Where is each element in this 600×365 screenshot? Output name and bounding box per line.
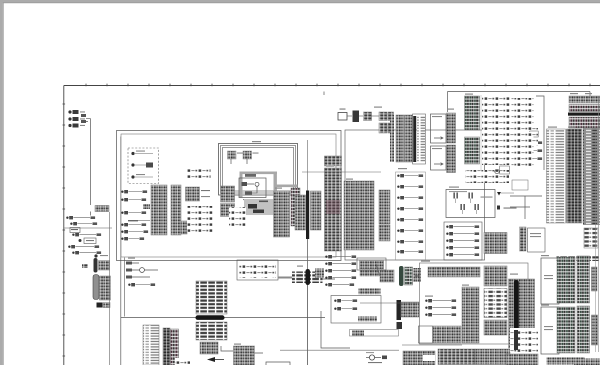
solenoid SV-2 [397, 186, 399, 188]
arrow comp bottom right [510, 328, 538, 352]
connector CN-K1 row [569, 96, 600, 103]
wire box psv [357, 258, 386, 270]
driver labels [449, 191, 467, 192]
connector CN-G1b maroon table [291, 188, 300, 226]
connector cells below panel [584, 228, 598, 248]
scatter comps above driver box [465, 170, 509, 183]
wire riser left1 [120, 258, 122, 365]
junction block q2 [397, 322, 403, 329]
connector CN-Q0 [380, 270, 394, 282]
connector CN-RQ0 cells [315, 269, 324, 278]
switch SW-9 [121, 231, 123, 233]
list table L2 [143, 325, 159, 365]
solenoid SV-5 [397, 219, 399, 221]
connector CN-H1 upper block [325, 156, 342, 166]
pump box B2 [237, 260, 278, 280]
junction bar dark q [397, 300, 402, 320]
timer box [331, 296, 381, 324]
wire joint right [323, 278, 336, 280]
fuse cell FC-3 [388, 112, 394, 121]
monitor unit mid [221, 146, 296, 194]
switch SW-10 [121, 238, 123, 240]
connector CN-E0 table [221, 204, 235, 217]
solenoid bank box [396, 172, 426, 260]
connector CN-F1 table [187, 167, 211, 178]
transistor Q4 [475, 204, 476, 210]
cells right of bar [401, 302, 419, 317]
fusible box FB-4 [431, 146, 447, 170]
edge harness col green lower [577, 306, 590, 353]
wire right edge outer [598, 96, 600, 352]
connector CN-O2 [234, 346, 255, 365]
box bottom edge [266, 362, 290, 365]
sensor row 1 [446, 226, 448, 228]
gray connector panel [583, 128, 600, 225]
junction capsule C0 [94, 258, 98, 273]
connector CN-E1 table [151, 185, 167, 235]
bottom cells row BR [506, 354, 538, 365]
transistor Q3 [461, 204, 462, 210]
label CN-R2 [462, 285, 469, 286]
gauge box [239, 178, 266, 198]
connector CN-N2 bank [196, 281, 227, 314]
pump comps [239, 262, 276, 278]
connector CN-F2 table [186, 187, 200, 201]
label BR2 [541, 305, 549, 306]
monitor unit inner [223, 148, 294, 192]
relay row RR-3 [325, 270, 327, 272]
wire bus y228 [64, 227, 112, 229]
fuse cell FC-5 [388, 123, 394, 133]
junction bar JB-2 [413, 116, 416, 162]
label SV bank [398, 168, 407, 169]
pressure switch cluster [508, 128, 538, 146]
wire right edge inner [595, 132, 597, 352]
junction bar JB-1 [306, 191, 309, 240]
pump box outline [420, 263, 529, 344]
enclosure box cab inner [121, 134, 336, 257]
connector CN-G3 table [311, 191, 322, 230]
wire stub [90, 212, 92, 216]
solenoid box q [419, 326, 433, 343]
relay row RR-2 [325, 263, 327, 265]
enclosure box right [345, 130, 485, 260]
bottom right marks [547, 358, 585, 365]
small box ps [530, 131, 538, 137]
wire feed top [324, 92, 590, 113]
switch SW-8 [121, 224, 123, 226]
connector CN-R1 [433, 326, 461, 343]
connector CN-H1 tall table [325, 168, 342, 251]
controller CN cols BR2 [557, 307, 575, 353]
connector CN-RQ2 cells [359, 289, 381, 295]
connector CN-E2 table [171, 185, 181, 235]
label driver box [449, 187, 459, 188]
connector CN-A1 pigtails [68, 110, 71, 113]
transistor Q1 [454, 193, 455, 199]
connector CN-C2 cells [103, 303, 110, 308]
wire riser left2 [123, 258, 125, 317]
connector CN-C0 cells [99, 261, 110, 271]
label list fuse [417, 116, 425, 162]
battery B-1 [338, 113, 347, 121]
wires right middle [510, 196, 542, 219]
connector CN-G1 table [274, 191, 290, 237]
label CN-G1 [275, 188, 282, 189]
fuse list box [413, 114, 426, 164]
timer cells [358, 317, 377, 322]
ground bus G-2 [403, 351, 435, 365]
relay row RR-5 [325, 284, 327, 286]
harness capsule C1 [93, 275, 99, 300]
wire o2 link [221, 346, 263, 353]
bus bar dark [568, 113, 600, 116]
connector CN-M1 [228, 151, 237, 159]
arrow feed 1 [434, 137, 443, 140]
small box y330 [350, 330, 399, 337]
resistor R-4 [128, 220, 138, 221]
solenoid SV-1 [397, 175, 399, 177]
connector CN-L1 [520, 227, 527, 251]
edge cells upper [592, 267, 598, 291]
connector CN-K3 rows [569, 117, 600, 128]
edge harness col green upper [577, 256, 590, 303]
connector CN-Q2b table [414, 268, 422, 282]
controller CN cols BR1 [557, 257, 575, 303]
connector CN-D2 [176, 221, 187, 234]
label solenoid q [425, 296, 433, 297]
bottom right marks row [574, 359, 600, 365]
connector CN-Q1 [360, 261, 384, 270]
connector CN-J3 table [447, 145, 456, 173]
switch SW-3 row [72, 234, 74, 236]
wire y303 [360, 302, 419, 304]
connector CN-H1 maroon tint [326, 200, 340, 214]
relay block table teal lower [465, 137, 480, 164]
flasher unit bottom [369, 355, 374, 360]
junction cell C2 [97, 303, 103, 308]
connector CN-P1 [352, 331, 364, 336]
ground bus row [557, 256, 600, 262]
ground bus G-3 [438, 349, 475, 365]
switch SW-6b [121, 199, 123, 201]
switch SW-4 row [68, 246, 70, 248]
switch SW-2 row [70, 223, 72, 225]
solenoid SV-3 [397, 197, 399, 199]
wire ground drop [109, 212, 111, 365]
label list [548, 127, 557, 128]
switch SW-5 row [72, 252, 74, 254]
connector CN-G2 table [295, 195, 306, 230]
marks bottom small [175, 358, 190, 365]
arrow mark bottom left [207, 357, 215, 362]
wire bus y316 [121, 317, 325, 319]
diode block D-1 [70, 228, 80, 233]
wire corner bl [321, 311, 350, 348]
wire riser x306 upper [307, 239, 309, 269]
connector CN-J1c table [405, 115, 413, 162]
switch SW-7 [121, 212, 123, 214]
controller box BR2 [541, 307, 559, 354]
fuse cell FC-4 [379, 123, 387, 133]
connector CN-N4 [200, 342, 218, 354]
horn H-1 [128, 284, 130, 286]
connector CN-N1 table [171, 329, 179, 365]
gauge circuit [242, 184, 257, 193]
label pump box [421, 261, 430, 262]
connector CN-J1 table [390, 115, 394, 162]
harness block BR cols [509, 279, 535, 348]
starter motor M-1 [353, 111, 360, 123]
label CN-H3 [346, 179, 353, 180]
solenoid SV-6 [397, 230, 399, 232]
label BR block [510, 274, 518, 275]
lamp E-3 [131, 175, 134, 178]
junction capsule N [196, 315, 225, 320]
edge cells lower [592, 315, 598, 345]
arrow mark driver [497, 192, 501, 196]
label CN-O2 [234, 344, 241, 345]
solenoid SV-7 [397, 241, 399, 243]
sensor bank box [444, 222, 482, 260]
connector CN-S2 [484, 289, 507, 318]
sensor row 4 [446, 247, 448, 249]
flasher cluster [140, 268, 145, 273]
left sparse comps col2 [512, 132, 534, 168]
switch SW-6 [121, 191, 123, 193]
switch SW-1 row [66, 217, 68, 219]
label fuse block [374, 107, 382, 108]
fuse cell FC-2 [379, 112, 387, 121]
harness column dark [567, 129, 583, 223]
sensor row 3 [446, 240, 448, 242]
signal list table [547, 129, 566, 223]
relay cluster mid right [521, 142, 523, 144]
connector CN-C1 cells [100, 276, 111, 300]
wire down-left feeder [90, 127, 92, 206]
junction block J-1 [292, 272, 323, 284]
connector CN-RQ1 cells [360, 270, 380, 277]
sensor row 5 [446, 254, 448, 256]
solenoid row q3 [425, 314, 427, 316]
harness column L2 [163, 328, 170, 365]
wire harness to frame [86, 119, 91, 127]
connector CN-H3 wide table [344, 181, 374, 250]
small box ps2 [500, 166, 510, 174]
wire center drop x121 lower [120, 137, 122, 258]
monitor shade band horizontal [240, 172, 278, 175]
connector CN-F3 table [187, 206, 213, 232]
connector CN-H4b table [379, 225, 390, 241]
connector CN-H4 table [379, 190, 390, 224]
connector CN-B1 [95, 206, 109, 212]
junction bar green [399, 266, 404, 286]
wire monitor link [231, 159, 247, 164]
connector CN-C0 left cell [82, 264, 88, 268]
enclosure box cab outline [117, 131, 342, 261]
label CN-H1 [326, 166, 334, 167]
arrow mark ps [515, 138, 520, 142]
ground bus G-4 [475, 349, 510, 365]
solenoid SV-8 [397, 251, 399, 253]
relay row RR-1 [325, 256, 327, 258]
relay block table teal upper [465, 96, 480, 130]
control box T-1 [528, 228, 546, 252]
solenoid row q2 [425, 307, 427, 309]
wire link q [376, 264, 419, 276]
left sparse comps col1 [512, 98, 534, 128]
connector CN-S1 [484, 266, 507, 286]
transistor Q2 [469, 193, 470, 199]
driver side block [497, 206, 500, 210]
monitor shade band vertical left [240, 172, 243, 198]
connector CN-I1 table [484, 233, 507, 254]
fuse cell FC-1 [364, 112, 372, 121]
timer comps [334, 300, 336, 302]
connector CN-M2 [243, 151, 252, 159]
wire y345 [402, 344, 462, 346]
lamp E-1 [131, 152, 134, 155]
monitor shade band horizontal low [274, 185, 298, 188]
wire joint thick left [278, 277, 292, 279]
controller box BR1 [541, 258, 559, 304]
harness shade patch [244, 199, 277, 215]
wire monitor to JB-1 [307, 140, 309, 191]
wire drop x481 [480, 95, 482, 170]
connector CN-J1b table [396, 115, 404, 162]
scatter comps right of relay block [482, 95, 510, 165]
connector CN-S3 [484, 320, 507, 335]
connector CN-N3 bank [196, 322, 227, 340]
monitor shade band vertical right [274, 172, 277, 215]
relay row RR-4 [325, 277, 327, 279]
label BR1 [541, 255, 549, 256]
small box mid right [512, 180, 528, 190]
label monitor [252, 141, 261, 142]
connector CN-A2 [81, 114, 86, 117]
solenoid row q1 [425, 300, 427, 302]
label junction J-1 [297, 266, 303, 267]
label harness [568, 127, 575, 128]
relay R-1 [84, 238, 96, 244]
wire riser x306 [307, 285, 309, 365]
comp cluster under relays [229, 207, 246, 227]
arrow feed 2 [434, 163, 443, 166]
wire fc [372, 115, 380, 117]
wire bus y350 [280, 349, 399, 351]
solenoid SV-4 [397, 208, 399, 210]
connector CN-E0b table [221, 186, 235, 202]
patch comps [248, 204, 257, 209]
label CN-J2 [447, 109, 454, 110]
connector CN-K2 row [569, 105, 600, 112]
monitor unit outer [219, 144, 298, 196]
connector CN-Q2 green table [405, 267, 413, 285]
sender unit S-1 [245, 174, 256, 177]
fusible box FB-3 [431, 114, 447, 143]
junction bar J-1 capsule [306, 269, 311, 285]
fusible link FL-1 [94, 254, 97, 257]
connector CN-R2 tall [462, 287, 479, 343]
lamp E-2 [131, 163, 134, 166]
junction bar BR capsule [514, 280, 519, 347]
wire feeder x544 [536, 96, 544, 170]
sensor row 2 [446, 233, 448, 235]
connector CN-Q3 header [428, 267, 480, 277]
wire y172 horizontal [302, 171, 381, 173]
connector CN-J2 table [447, 113, 456, 143]
diode symbol circle [495, 169, 499, 173]
label flasher [128, 258, 135, 259]
driver unit box [446, 190, 495, 218]
accessory box dashed [128, 148, 159, 184]
connector CN-D1 [143, 204, 150, 209]
label teal block [465, 94, 473, 95]
label top tables [570, 93, 578, 94]
